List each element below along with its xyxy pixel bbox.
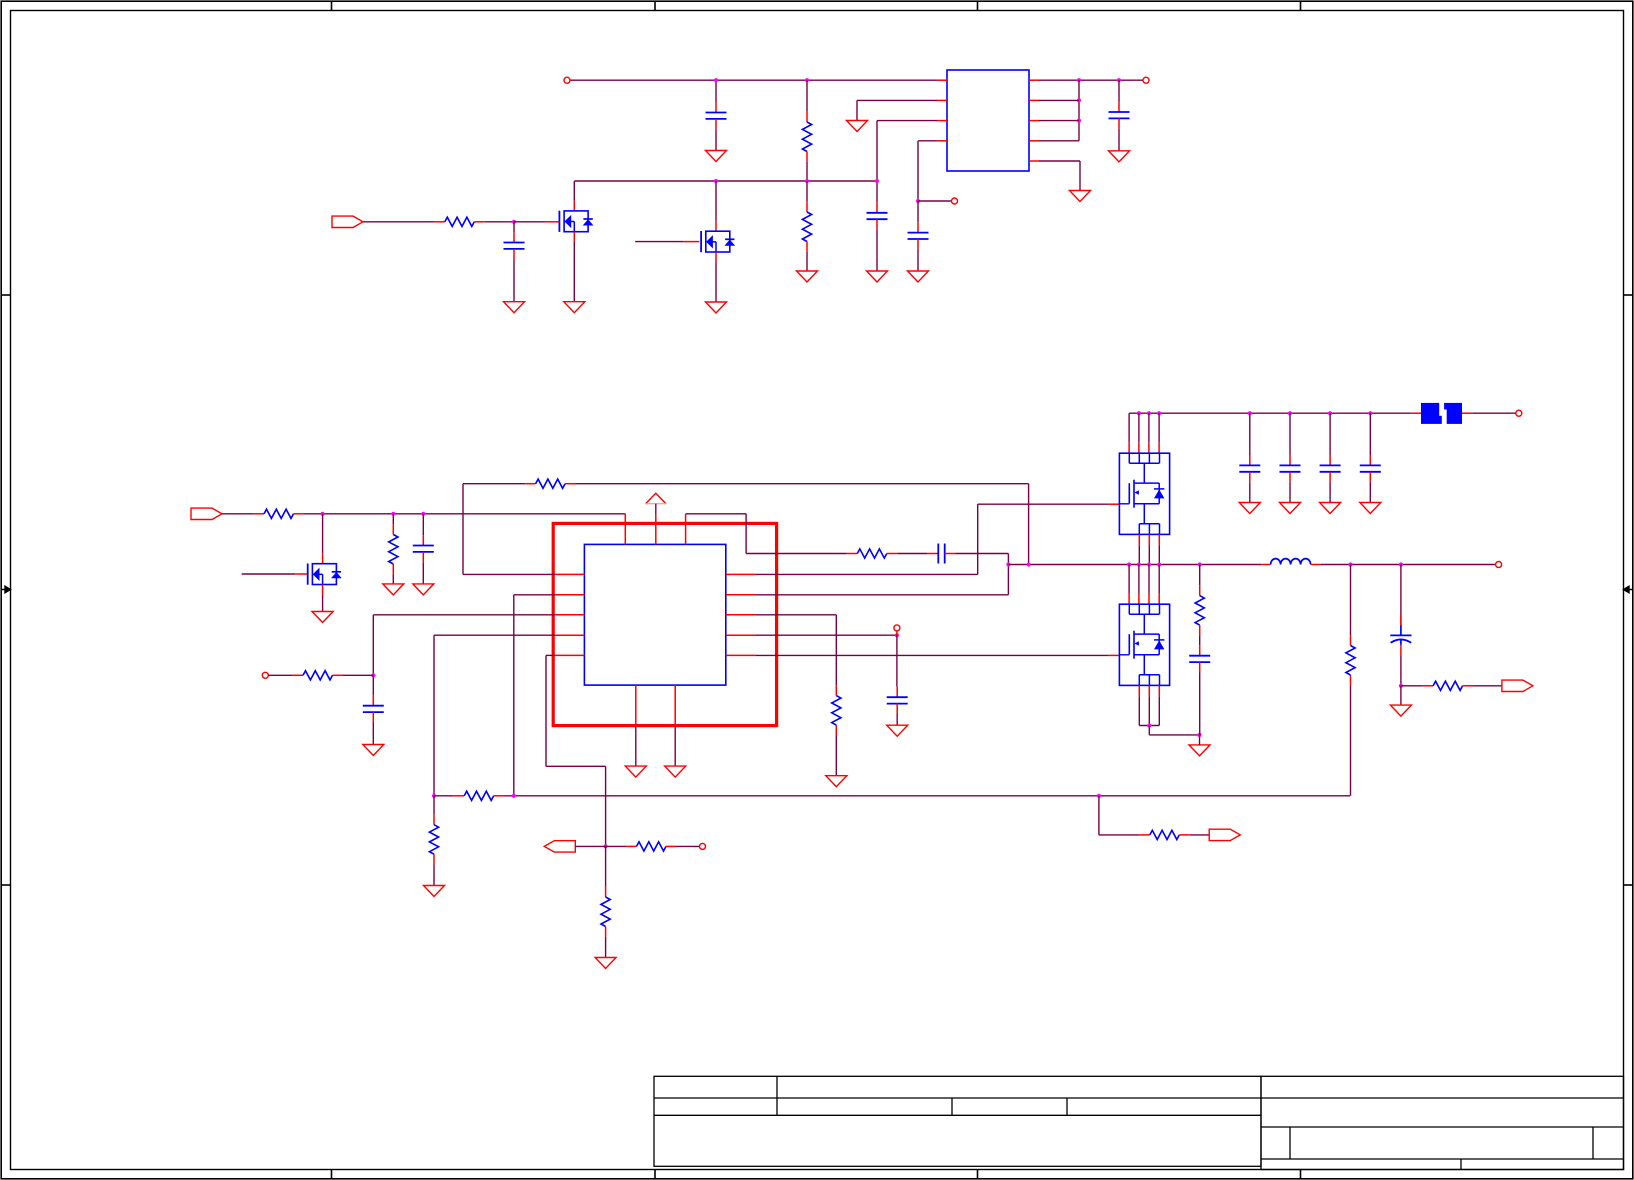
wire [1289, 482, 1291, 502]
junction [875, 179, 879, 183]
junction [1198, 562, 1202, 566]
terminal J4 [1496, 562, 1502, 568]
wire [372, 615, 374, 676]
wire [1007, 554, 1009, 565]
wire [576, 483, 1029, 485]
pin [1148, 685, 1150, 696]
wire [422, 514, 424, 535]
ground [424, 886, 445, 897]
resistor [605, 887, 607, 897]
wire [917, 141, 919, 201]
junction [1077, 119, 1081, 123]
junction [512, 220, 516, 224]
resistor R4 [254, 513, 264, 515]
pin [573, 232, 575, 242]
wire [1190, 834, 1210, 836]
pin [1138, 594, 1140, 604]
wire U2 pin5 right LG [756, 654, 1109, 656]
pin U1 left [937, 140, 947, 142]
capacitor [896, 687, 898, 697]
wire [674, 726, 676, 766]
wire [1139, 725, 1159, 727]
pin M2 gate [1109, 654, 1120, 656]
pin [684, 241, 700, 243]
junction [895, 633, 899, 637]
pin U1 left [937, 99, 947, 101]
wire [1149, 734, 1199, 736]
capacitor [372, 695, 374, 705]
capacitor C [1329, 455, 1331, 465]
wires U2 bottom pins to ground [635, 726, 637, 766]
wire [856, 100, 858, 120]
FB divider upper resistor R15 [1350, 565, 1352, 636]
terminal TP4 [894, 625, 900, 631]
wire Q1 gate [514, 221, 545, 223]
capacitor C [1289, 455, 1291, 465]
junction [1248, 411, 1252, 415]
pin U2 left [555, 573, 585, 575]
wire [1400, 655, 1402, 686]
junction [1157, 411, 1161, 415]
ground [383, 584, 404, 595]
snubber RC from SW [1199, 565, 1201, 586]
pin U2 top [624, 514, 626, 544]
branch to bottom right port [1098, 796, 1100, 835]
pin U2 bottom [635, 685, 637, 726]
resistor R14 [1199, 585, 1201, 595]
wire [1329, 482, 1331, 502]
port P5 [1209, 829, 1240, 840]
wire [835, 615, 837, 685]
capacitor [1118, 102, 1120, 112]
pin [1148, 594, 1150, 604]
node VIN_TOP rail wire [570, 79, 937, 81]
pin [1158, 685, 1160, 696]
power flag VCC [646, 493, 666, 503]
wire [876, 121, 878, 181]
ground [706, 151, 727, 162]
wire U2 pin5 left to FB port [546, 654, 555, 656]
wire [1329, 413, 1331, 455]
ground [665, 766, 686, 777]
transistor Q1 [564, 211, 588, 232]
pin U2 left [555, 654, 585, 656]
wire [896, 714, 898, 725]
ground [887, 725, 908, 736]
junction [714, 78, 718, 82]
wire [1118, 80, 1120, 101]
node VIN_MID rail [323, 513, 626, 515]
inductor L1 [1261, 564, 1270, 566]
pin U1 right [1029, 120, 1039, 122]
terminal TP2 [262, 672, 268, 678]
wire BOOT net with resistor R7 [463, 573, 555, 575]
pin [1148, 534, 1150, 545]
junction [1027, 562, 1031, 566]
wire [1158, 565, 1160, 594]
pin [573, 200, 575, 210]
port P2 [191, 508, 222, 519]
pin [295, 573, 307, 575]
resistor [1350, 635, 1352, 645]
resistor R10 [454, 795, 464, 797]
wire [1099, 834, 1140, 836]
port P1 [332, 216, 363, 227]
junction [1147, 723, 1151, 727]
wire [1138, 413, 1140, 443]
ground [363, 745, 384, 756]
output cap C11 polarized [1400, 565, 1402, 626]
ground [1360, 503, 1381, 514]
wire [1007, 565, 1009, 595]
resistor R16 [1423, 685, 1433, 687]
transistor Q3 [312, 564, 336, 585]
junction [805, 78, 809, 82]
node VIN right rail [1129, 412, 1411, 414]
pin [1138, 443, 1140, 454]
wire [433, 635, 435, 796]
wire [745, 514, 747, 554]
ground [312, 612, 333, 623]
wire [806, 80, 808, 111]
wire [1148, 545, 1150, 564]
wire [1369, 482, 1371, 502]
ground [867, 271, 888, 282]
pin [1138, 685, 1140, 696]
wire Q3 drain [322, 514, 324, 554]
wire [1158, 696, 1160, 725]
wire [422, 562, 424, 584]
wire [433, 865, 435, 886]
wire [605, 937, 607, 958]
junction [1006, 562, 1010, 566]
wire U2 top pin3 to RC [685, 513, 687, 516]
wire [463, 483, 525, 485]
junction [432, 794, 436, 798]
module M1 drain wires [1128, 413, 1130, 443]
junction [1117, 78, 1121, 82]
pin U1 right [1029, 79, 1039, 81]
ground [1390, 705, 1411, 716]
pin U2 right [726, 614, 756, 616]
wire [1138, 565, 1140, 594]
pin U2 right [726, 594, 756, 596]
pin U1 left [937, 120, 947, 122]
wire VIN to U2 pin top1 [624, 513, 626, 516]
pin [1138, 534, 1140, 545]
resistor [433, 814, 435, 824]
wire [1039, 99, 1079, 101]
terminal TP1 [952, 198, 958, 204]
wire [1039, 120, 1079, 122]
wire [806, 162, 808, 181]
sense resistor R16 to port [1401, 685, 1423, 687]
capacitor [876, 202, 878, 212]
ground [1280, 503, 1301, 514]
junction [1399, 562, 1403, 566]
pin U2 right [726, 654, 756, 656]
wire [1473, 685, 1502, 687]
junction [1127, 562, 1131, 566]
pin U2 bottom [674, 685, 676, 726]
IC U2 highlight box [553, 523, 776, 725]
node SW rail [1008, 564, 1261, 566]
wire [876, 181, 878, 202]
wire [655, 504, 657, 515]
IC U1 [947, 70, 1029, 171]
wire [1148, 726, 1150, 735]
wire [304, 513, 323, 515]
junction [421, 512, 425, 516]
node FB long wire [434, 795, 454, 797]
junction [1197, 733, 1201, 737]
pin [1158, 534, 1160, 545]
resistor [806, 202, 808, 212]
wire [977, 504, 979, 574]
ground [847, 121, 868, 132]
ground [826, 776, 847, 787]
wire [1118, 129, 1120, 151]
wire [955, 553, 1008, 555]
terminal TP3 [700, 843, 706, 849]
wire [1138, 696, 1140, 725]
wire [268, 674, 292, 676]
wire [1078, 80, 1080, 141]
transistor Q2 [706, 231, 730, 252]
capacitor [715, 102, 717, 112]
wire [372, 723, 374, 745]
wire [605, 766, 607, 846]
wire [835, 736, 837, 776]
resistor R17 [1139, 834, 1149, 836]
capacitor [422, 535, 424, 545]
ground [413, 584, 434, 595]
ground [1320, 503, 1341, 514]
junction [1097, 794, 1101, 798]
node VOUT_TOP wires [1039, 79, 1143, 81]
junction [1368, 411, 1372, 415]
wire [1039, 140, 1079, 142]
wire [605, 846, 607, 886]
wire [545, 655, 547, 766]
pin U2 left [555, 594, 585, 596]
pin [715, 221, 717, 231]
junction [916, 199, 920, 203]
wire [1128, 565, 1130, 594]
wire Q3 gate [242, 573, 295, 575]
resistor [806, 112, 808, 122]
wire FB long [504, 795, 1350, 797]
wire Q3 source [322, 595, 324, 612]
junction [1399, 684, 1403, 688]
junction [512, 794, 516, 798]
capacitor C [1369, 455, 1371, 465]
pin U1 right [1029, 99, 1039, 101]
pin [896, 631, 898, 635]
wire [1369, 413, 1371, 455]
pin U2 top [685, 514, 687, 544]
wire [575, 845, 605, 847]
wire [343, 674, 373, 676]
wire U1 pin3 [877, 120, 937, 122]
wire U2 pin4 left [434, 634, 555, 636]
wire [513, 259, 515, 301]
wire U2 pin3 right [756, 614, 837, 616]
wire [485, 221, 514, 223]
wire [676, 845, 699, 847]
ground [564, 302, 585, 313]
wire Q1 drain [573, 181, 575, 200]
wire [546, 765, 606, 767]
wire [1472, 412, 1515, 414]
pin U1 right [1029, 160, 1039, 162]
pin [945, 553, 956, 555]
wire [897, 553, 928, 555]
wire [1249, 482, 1251, 502]
wire [1148, 696, 1150, 725]
wire [1138, 545, 1140, 564]
port P3 [544, 841, 575, 852]
wire [917, 201, 919, 222]
pin U2 left [555, 614, 585, 616]
junction [321, 512, 325, 516]
wire [363, 221, 434, 223]
resistor R13 [835, 685, 837, 695]
wire [372, 675, 374, 695]
wire [686, 513, 747, 515]
node VOUT rail [1321, 564, 1496, 566]
junction [1288, 411, 1292, 415]
wire [806, 252, 808, 271]
wire U2 pin3 left [373, 614, 555, 616]
resistor [392, 524, 394, 534]
wire [1148, 565, 1150, 594]
fuse F1 [1411, 412, 1421, 414]
wire FB net U2 pin2 left [514, 594, 555, 596]
wire Q2 gate [635, 241, 684, 243]
wire [715, 80, 717, 102]
wire Q2 source [715, 262, 717, 302]
wire [1249, 413, 1251, 455]
junction [1137, 411, 1141, 415]
pin [1158, 594, 1160, 604]
wire [1079, 161, 1081, 191]
junction [1137, 562, 1141, 566]
capacitor [917, 222, 919, 232]
pin [545, 221, 559, 223]
pin U2 left [555, 634, 585, 636]
wire [917, 249, 919, 271]
junction [1348, 562, 1352, 566]
ground [504, 302, 525, 313]
IC U2 [584, 544, 725, 685]
pin [928, 553, 939, 555]
wire U1 pin2 to ground [857, 99, 937, 101]
ground [595, 958, 616, 969]
ground [1239, 503, 1260, 514]
resistor R7 [525, 483, 535, 485]
wire [1028, 484, 1030, 565]
wire [1148, 413, 1150, 443]
ground [706, 302, 727, 313]
wire [1289, 413, 1291, 455]
ground [908, 271, 929, 282]
pin [1158, 443, 1160, 454]
junction [1077, 98, 1081, 102]
pin [322, 553, 324, 563]
resistor R3 [434, 221, 444, 223]
wire Q2 drain [715, 181, 717, 221]
pin [1148, 443, 1150, 454]
junction [1147, 562, 1151, 566]
wire [433, 796, 435, 815]
capacitor [1199, 645, 1201, 655]
wire U2 pin4 right [756, 634, 897, 636]
junction [1147, 411, 1151, 415]
wire Q1 source [573, 242, 575, 302]
wire [513, 595, 515, 796]
junction [1077, 78, 1081, 82]
pin U2 right [726, 573, 756, 575]
title block [654, 1076, 1261, 1166]
wire U2 pin2 right [756, 594, 1009, 596]
wire [1199, 636, 1201, 646]
terminal J1 [564, 77, 570, 83]
resistor R11 [626, 845, 636, 847]
pin U2 right [726, 634, 756, 636]
junction [371, 673, 375, 677]
wire [876, 230, 878, 271]
resistor R6 [847, 553, 857, 555]
ground [1070, 191, 1091, 202]
pin [1128, 594, 1130, 604]
junction [604, 844, 608, 848]
pin U1 right [1029, 140, 1039, 142]
wire [1350, 685, 1352, 795]
wire [1158, 413, 1160, 443]
junction [391, 512, 395, 516]
wire [222, 513, 254, 515]
mosfet module M1 high side [1119, 453, 1169, 534]
pin [715, 252, 717, 262]
junction [805, 179, 809, 183]
wire U1 pin4 [918, 140, 937, 142]
wire [1199, 673, 1201, 735]
wire [806, 181, 808, 202]
ground [797, 271, 818, 282]
capacitor [513, 232, 515, 242]
wire [1199, 735, 1201, 745]
pin [1128, 443, 1130, 454]
junction [1157, 562, 1161, 566]
capacitor C [1249, 455, 1251, 465]
wire [746, 553, 847, 555]
ground [1109, 151, 1130, 162]
port P4 [1502, 680, 1533, 691]
junction [1328, 411, 1332, 415]
pin U2 top [655, 514, 657, 544]
terminal J3 [1516, 410, 1522, 416]
wire [606, 845, 627, 847]
pin M1 gate [1109, 503, 1120, 505]
wire U1 bottom right pin to ground [1039, 160, 1080, 162]
pin [322, 585, 324, 595]
wire [896, 635, 898, 687]
wire U2 pin1 right HG [756, 573, 978, 575]
wire [715, 129, 717, 150]
node bus2 wire [574, 180, 877, 182]
wire [1400, 686, 1402, 705]
